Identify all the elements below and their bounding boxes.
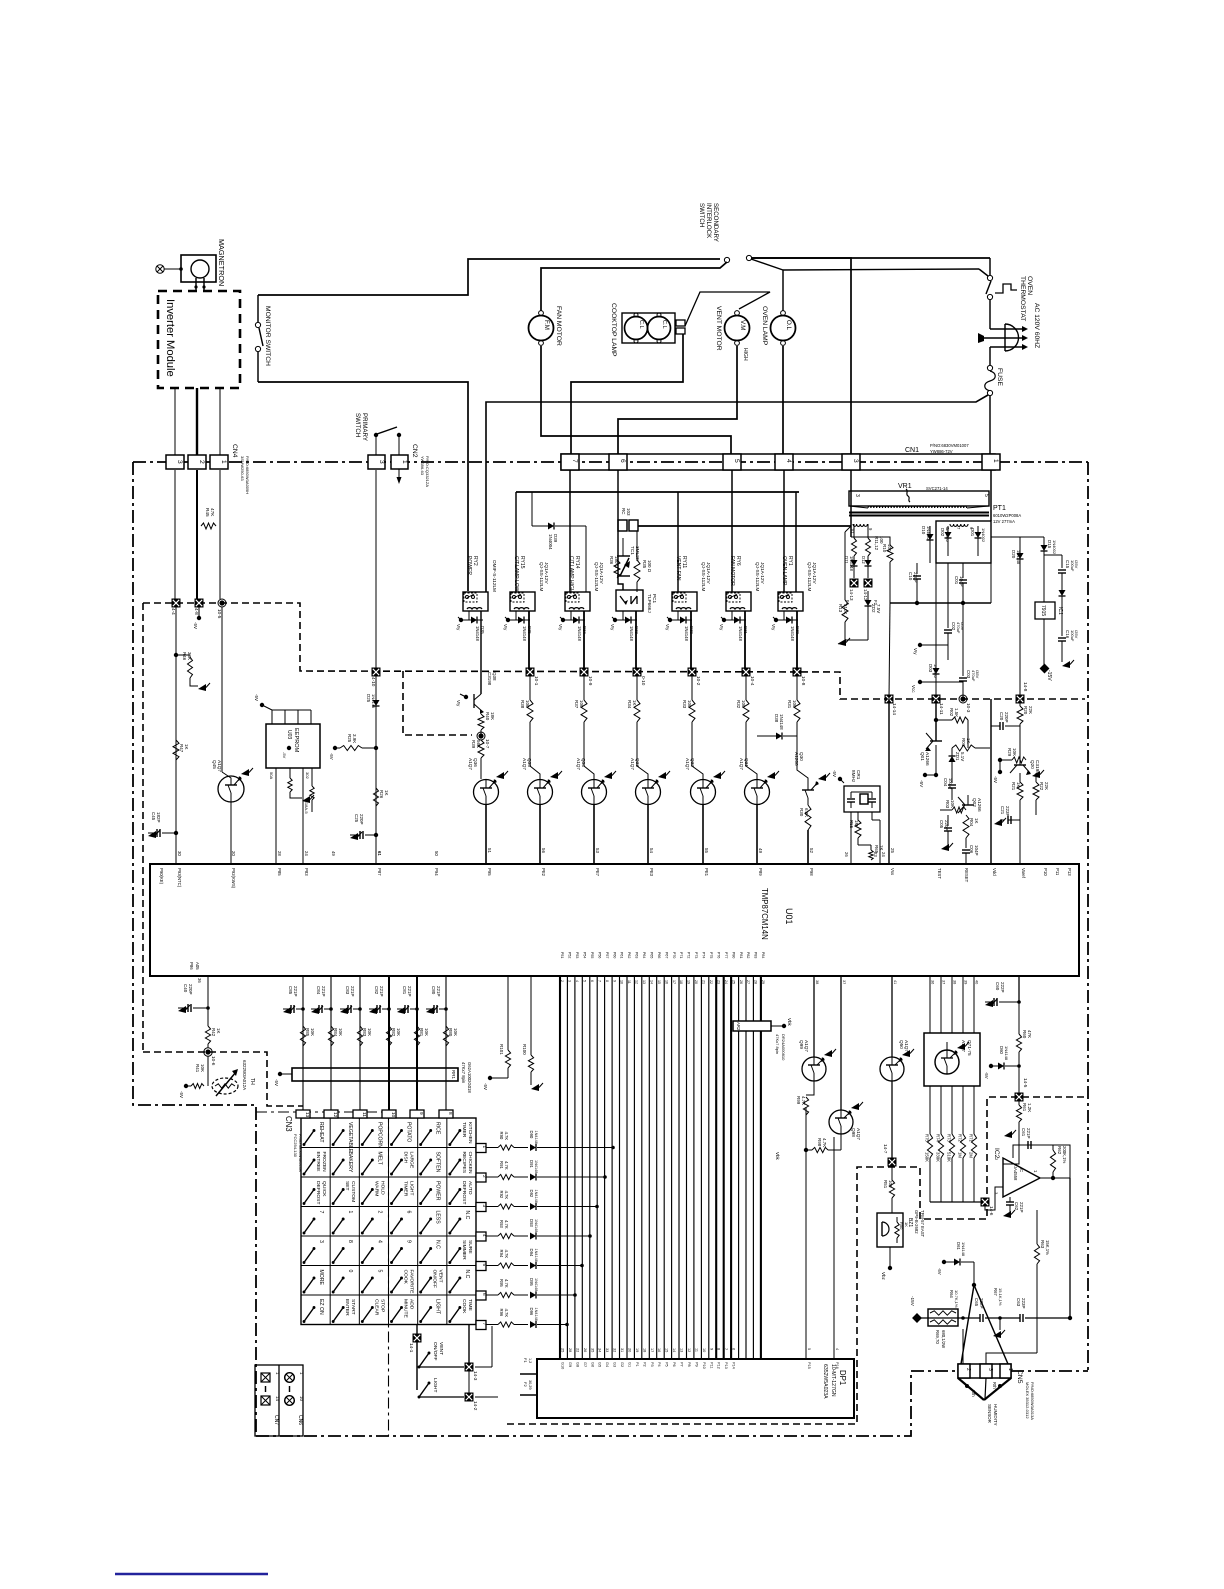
- svg-text:-5V: -5V: [984, 1072, 989, 1079]
- svg-text:Vbz: Vbz: [881, 1272, 886, 1280]
- wire lamp connector to vent motor rail: [685, 292, 770, 326]
- bus wire 10: [626, 976, 628, 1359]
- transistor Q99 A1Q7: [813, 976, 815, 1057]
- wires nodes up to keypad: [468, 1325, 470, 1364]
- node 4-10: [372, 668, 381, 677]
- svg-text:P10: P10: [1043, 868, 1048, 876]
- op-amp IC2 KIA4558: [1003, 1158, 1040, 1197]
- bus wire 16: [671, 976, 673, 1359]
- svg-text:D20: D20: [1011, 550, 1016, 559]
- svg-text:TFM-57 EAST: TFM-57 EAST: [920, 1210, 925, 1238]
- svg-text:8: 8: [605, 980, 609, 982]
- svg-text:R101: R101: [499, 1044, 504, 1055]
- svg-text:13: 13: [642, 980, 646, 984]
- resistor array AR2: [733, 1021, 771, 1031]
- zener ZD1 5.1V: [951, 748, 953, 756]
- svg-text:SURE: SURE: [467, 1240, 473, 1254]
- resistor R46 33K: [174, 653, 178, 657]
- svg-text:Rth': Rth': [992, 1382, 997, 1390]
- svg-text:100: 100: [887, 544, 892, 552]
- svg-text:24: 24: [881, 852, 886, 857]
- svg-text:ZD2: ZD2: [871, 604, 876, 613]
- svg-text:SECONDARY: SECONDARY: [712, 203, 719, 242]
- svg-text:22: 22: [709, 980, 713, 984]
- svg-text:ENTREE: ENTREE: [315, 1152, 321, 1173]
- node 10-8: [796, 611, 798, 672]
- svg-text:R84: R84: [333, 1028, 338, 1037]
- svg-text:14-7: 14-7: [883, 1144, 888, 1154]
- Inverter Module dashed box: [158, 291, 240, 388]
- svg-text:2: 2: [965, 1368, 971, 1371]
- svg-text:11: 11: [694, 1348, 698, 1352]
- wire CN1-6 down to PC1: [618, 470, 623, 590]
- svg-text:R13: R13: [838, 604, 843, 613]
- thermistor network: capacitor C40 220P: [207, 976, 209, 1026]
- svg-text:220P: 220P: [913, 572, 918, 582]
- svg-text:TIME: TIME: [467, 1299, 473, 1311]
- svg-text:D10: D10: [921, 526, 926, 535]
- wire relay 684 to node: [690, 611, 692, 672]
- svg-text:223P: 223P: [1005, 806, 1010, 816]
- svg-text:Vss: Vss: [890, 868, 895, 875]
- svg-text:7915: 7915: [1040, 605, 1046, 616]
- svg-text:10-4: 10-4: [750, 676, 755, 686]
- svg-text:ENTER: ENTER: [344, 1299, 350, 1316]
- svg-text:180 Ω: 180 Ω: [614, 556, 619, 569]
- svg-text:17: 17: [650, 1348, 654, 1352]
- svg-text:4.7K: 4.7K: [504, 1220, 509, 1229]
- diode D39 1N4004: [531, 492, 533, 526]
- key switch LIGHT: [421, 1308, 431, 1322]
- svg-text:P60: P60: [612, 952, 616, 958]
- svg-text:REHEAT: REHEAT: [318, 1122, 324, 1143]
- svg-text:CUSTOM: CUSTOM: [350, 1181, 356, 1202]
- svg-text:PRIMARY: PRIMARY: [361, 413, 368, 441]
- svg-text:U01: U01: [784, 908, 794, 924]
- resistor R83 10K: [357, 1026, 362, 1046]
- ground filament: [845, 639, 868, 641]
- svg-text:P71: P71: [679, 952, 683, 958]
- svg-text:R46: R46: [182, 652, 187, 661]
- svg-text:KIA4558: KIA4558: [1013, 1164, 1018, 1181]
- wire U01 to keypad column 3: [359, 976, 361, 1112]
- svg-text:182P: 182P: [156, 812, 161, 822]
- CN3 header boxes: [296, 1110, 310, 1118]
- svg-text:INTERLOCK: INTERLOCK: [705, 203, 712, 239]
- svg-text:Vcc: Vcc: [911, 685, 916, 693]
- svg-text:F2: F2: [523, 1382, 528, 1387]
- flyback diode D32 1N4148: [677, 611, 679, 620]
- svg-text:P2: P2: [642, 1362, 646, 1367]
- key switch VENT ON/OFF: [421, 1278, 431, 1292]
- svg-text:R42: R42: [211, 1028, 216, 1037]
- svg-text:Varef: Varef: [1021, 868, 1026, 879]
- svg-text:302: 302: [305, 772, 310, 779]
- svg-text:SET: SET: [344, 1181, 350, 1191]
- svg-text:LIGHT: LIGHT: [432, 1378, 438, 1392]
- svg-text:Q02: Q02: [972, 798, 977, 807]
- svg-text:R72: R72: [958, 1134, 963, 1142]
- svg-text:100: 100: [525, 700, 530, 708]
- svg-text:SWITCH: SWITCH: [698, 203, 705, 227]
- svg-text:D96: D96: [529, 1308, 534, 1316]
- svg-text:TIMER: TIMER: [461, 1122, 467, 1138]
- feedback C61 221P: [1040, 1177, 1070, 1179]
- node 14-13: [850, 579, 859, 588]
- capacitor C20 220P: [990, 699, 992, 864]
- svg-text:14-12: 14-12: [863, 589, 868, 601]
- svg-text:1N4148: 1N4148: [534, 1190, 538, 1203]
- svg-text:2: 2: [376, 1211, 382, 1214]
- svg-text:16: 16: [664, 980, 668, 984]
- relay RY1: [778, 592, 803, 611]
- svg-text:1K: 1K: [216, 1028, 221, 1033]
- svg-text:P64: P64: [642, 952, 646, 958]
- svg-text:10K: 10K: [367, 1028, 372, 1036]
- resistor R55 1M: [857, 812, 859, 820]
- svg-text:10K: 10K: [424, 1028, 429, 1036]
- dashed LV boundary spur: [403, 671, 472, 735]
- svg-text:36: 36: [931, 980, 935, 984]
- svg-text:A1Q7: A1Q7: [217, 760, 222, 772]
- wire CN4 pins down: [174, 470, 176, 599]
- svg-text:G62A1002G018: G62A1002G018: [467, 1062, 472, 1093]
- svg-text:1K: 1K: [1016, 782, 1021, 787]
- svg-text:220P: 220P: [188, 984, 193, 994]
- svg-text:C3198: C3198: [487, 672, 492, 686]
- svg-text:C85: C85: [288, 986, 293, 995]
- svg-text:C81: C81: [402, 986, 407, 995]
- dashed boundary bottom right: [507, 1097, 1085, 1424]
- svg-text:680,1/2W: 680,1/2W: [941, 1330, 946, 1348]
- transistor Q50 A1Q7: [891, 976, 893, 1057]
- svg-text:11: 11: [362, 1112, 367, 1117]
- svg-text:R22: R22: [1039, 782, 1044, 791]
- svg-text:A1266: A1266: [794, 752, 799, 766]
- IC2 pin2 network from 14-5: [1018, 976, 1020, 1002]
- svg-text:MOLEX 35312-0312: MOLEX 35312-0312: [1025, 1382, 1030, 1419]
- resistor R32 100: [745, 676, 747, 700]
- bus wire 20: [700, 976, 702, 1359]
- svg-text:5: 5: [983, 494, 989, 497]
- svg-text:9: 9: [419, 1112, 424, 1115]
- svg-text:DEFROST: DEFROST: [461, 1181, 467, 1204]
- svg-text:1N4002: 1N4002: [926, 526, 931, 541]
- svg-text:VENT: VENT: [438, 1342, 444, 1355]
- key switch POPCORN: [362, 1131, 372, 1145]
- svg-text:OVEN LAMP: OVEN LAMP: [761, 306, 768, 346]
- svg-text:D91: D91: [529, 1160, 534, 1168]
- svg-text:C06: C06: [969, 845, 974, 854]
- svg-text:C/T.LAMP HIGH: C/T.LAMP HIGH: [568, 556, 574, 593]
- svg-text:221P: 221P: [1019, 1202, 1024, 1212]
- svg-text:C84: C84: [316, 986, 321, 995]
- svg-text:D15: D15: [1047, 540, 1052, 549]
- svg-text:N.C: N.C: [464, 1270, 470, 1279]
- svg-text:100: 100: [888, 1180, 893, 1188]
- svg-text:17: 17: [672, 980, 676, 984]
- svg-text:51: 51: [487, 848, 492, 853]
- wire interlock to thermostat: [783, 269, 979, 270]
- wire U01 to keypad column 4: [388, 976, 390, 1112]
- svg-text:26: 26: [844, 852, 849, 857]
- svg-text:2: 2: [560, 980, 564, 982]
- svg-text:-5V: -5V: [832, 770, 837, 777]
- key switch 5: [362, 1278, 372, 1292]
- svg-text:Vry: Vry: [456, 700, 461, 707]
- transistor array Q71-75: [929, 976, 931, 1033]
- EEPROM U03: [266, 724, 320, 768]
- transistor Q02 A1266: [967, 795, 969, 805]
- svg-text:P5: P5: [665, 1362, 669, 1367]
- svg-text:OMIF-S-112LM: OMIF-S-112LM: [492, 560, 497, 592]
- transistor Q01 A1266: [935, 699, 937, 741]
- wire Q35 to U01 pin 56: [539, 805, 541, 864]
- svg-text:D12: D12: [861, 556, 866, 564]
- rectifier box D01 D02: [936, 521, 991, 563]
- svg-text:R75: R75: [925, 1134, 930, 1142]
- bus wire 22: [715, 976, 717, 1359]
- key switch 0: [333, 1278, 343, 1292]
- key switch MELT: [362, 1160, 372, 1174]
- resistor R50 1K: [896, 1217, 898, 1222]
- resistor R36 180: [614, 560, 620, 578]
- svg-text:P77: P77: [724, 952, 728, 958]
- svg-text:Vry: Vry: [456, 624, 461, 631]
- bus wire 23: [723, 976, 725, 1359]
- svg-text:9: 9: [406, 1240, 412, 1243]
- -5V tap q20: [999, 760, 1001, 770]
- node 10-1: [526, 668, 535, 677]
- svg-text:C61: C61: [1021, 1128, 1026, 1137]
- svg-text:C40: C40: [183, 984, 188, 993]
- svg-text:14-8: 14-8: [1023, 682, 1028, 692]
- svg-text:4.7K: 4.7K: [504, 1309, 509, 1318]
- svg-text:24: 24: [724, 980, 728, 984]
- svg-text:POPCORN: POPCORN: [376, 1122, 382, 1148]
- svg-text:5: 5: [376, 1270, 382, 1273]
- svg-text:221P: 221P: [436, 986, 441, 996]
- bus wire 26: [745, 976, 747, 1359]
- svg-text:C15: C15: [1065, 560, 1070, 569]
- svg-text:Vry: Vry: [503, 624, 508, 631]
- svg-text:VEGETABLE: VEGETABLE: [347, 1122, 353, 1153]
- svg-text:1K: 1K: [966, 738, 971, 743]
- connector CN2: [368, 455, 385, 469]
- dashed LV boundary with nodes: [143, 603, 1085, 699]
- svg-text:R98: R98: [817, 1138, 822, 1147]
- svg-text:VENT FAN: VENT FAN: [675, 556, 681, 581]
- resistor R91 4.7K: [486, 1176, 498, 1178]
- diode D25 1N4148: [375, 676, 377, 700]
- svg-text:56K: 56K: [476, 740, 481, 748]
- svg-text:14-5: 14-5: [1023, 1078, 1028, 1088]
- svg-text:12: 12: [635, 980, 639, 984]
- resistor array RR1: [292, 1068, 458, 1081]
- svg-text:-5V: -5V: [993, 776, 998, 783]
- bus wire 25: [738, 976, 740, 1359]
- node 14-12: [864, 579, 873, 588]
- svg-text:R30: R30: [799, 808, 804, 817]
- svg-text:R95: R95: [499, 1279, 504, 1287]
- diode D15 1N4002: [991, 536, 1044, 538]
- svg-text:3.9K: 3.9K: [352, 734, 357, 743]
- svg-text:10K: 10K: [1012, 748, 1017, 756]
- svg-text:G2: G2: [620, 1362, 624, 1367]
- capacitor C60 222P: [985, 1000, 993, 1007]
- svg-text:DR24A000810: DR24A000810: [781, 1034, 786, 1061]
- relay RY2: [463, 592, 488, 611]
- svg-text:ADD: ADD: [409, 1299, 415, 1310]
- lamp connector: [676, 320, 685, 326]
- svg-text:10: 10: [702, 1348, 706, 1352]
- relay feed bus: [516, 491, 799, 493]
- svg-text:11: 11: [627, 980, 631, 984]
- svg-text:YW886-72V: YW886-72V: [930, 449, 953, 454]
- svg-text:104P: 104P: [959, 576, 964, 586]
- wire relay 738 to node: [744, 611, 746, 672]
- svg-text:R32: R32: [736, 700, 741, 709]
- svg-text:R82: R82: [391, 1028, 396, 1037]
- svg-text:3: 3: [176, 460, 183, 464]
- diode to regulator: [1059, 590, 1066, 596]
- svg-text:1N4148: 1N4148: [849, 556, 854, 572]
- svg-text:R21: R21: [1011, 782, 1016, 791]
- svg-text:C62: C62: [1014, 1202, 1019, 1211]
- svg-text:3: 3: [568, 980, 572, 982]
- key switch EZ ON: [304, 1308, 314, 1322]
- svg-text:P81: P81: [739, 952, 743, 958]
- svg-text:1N4148: 1N4148: [629, 626, 634, 642]
- svg-text:36: 36: [197, 978, 202, 983]
- wire inverter to CN4 pin1: [219, 388, 221, 456]
- svg-text:C02: C02: [951, 622, 956, 631]
- svg-text:R37: R37: [574, 700, 579, 709]
- node 10-4: [742, 668, 751, 677]
- svg-text:CN1: CN1: [905, 447, 919, 454]
- capacitor C65 222P: [917, 1317, 980, 1319]
- monitor switch: [257, 295, 259, 322]
- node 14-2: [419, 1396, 464, 1398]
- capacitor C45 182P: [148, 831, 156, 838]
- svg-text:10-6: 10-6: [211, 1056, 216, 1066]
- svg-text:P61: P61: [620, 952, 624, 958]
- svg-text:P93(NTC): P93(NTC): [177, 868, 182, 888]
- svg-text:55: 55: [704, 848, 709, 853]
- key switch 2: [362, 1219, 372, 1233]
- key switch FAVORITE COOK: [392, 1278, 402, 1292]
- svg-text:ON/OFF: ON/OFF: [432, 1342, 438, 1361]
- svg-text:Vry: Vry: [719, 624, 724, 631]
- AC plug: [1005, 324, 1019, 351]
- svg-text:1: 1: [220, 460, 227, 464]
- wire U01 to keypad column 1: [302, 976, 304, 1112]
- svg-text:R94: R94: [499, 1250, 504, 1258]
- svg-text:D02: D02: [940, 528, 945, 537]
- resistor R93 4.7K: [486, 1235, 498, 1237]
- op-amp U01 microcontroller TMP87CM14N: [150, 864, 1079, 976]
- key switch STOP CLEAR: [362, 1308, 372, 1322]
- bus wire 19: [693, 976, 695, 1359]
- key switch ADD MINUTE: [392, 1308, 402, 1322]
- svg-text:Q99: Q99: [799, 1040, 804, 1049]
- wire CN1-7 down to relay RY14: [569, 470, 571, 592]
- svg-text:U03: U03: [286, 730, 292, 739]
- svg-text:IC: IC: [1019, 1168, 1024, 1172]
- bus wire 8: [611, 976, 613, 1359]
- svg-text:Vry: Vry: [610, 624, 615, 631]
- svg-text:P66: P66: [657, 952, 661, 958]
- key switch HOLD WARM: [362, 1190, 372, 1204]
- svg-text:-5V: -5V: [937, 1268, 942, 1275]
- key switch CHICKEN RECIPES: [450, 1160, 460, 1174]
- svg-text:SWITCH: SWITCH: [354, 413, 361, 437]
- svg-text:1N4148: 1N4148: [534, 1249, 538, 1262]
- key switch N.C: [450, 1278, 460, 1292]
- capacitor C15 100uF 25V: [1061, 555, 1063, 568]
- svg-text:32: 32: [613, 1348, 617, 1352]
- resistor R21 1K: [1019, 773, 1021, 782]
- svg-text:HOLD: HOLD: [379, 1181, 385, 1195]
- svg-text:FAVORITE: FAVORITE: [409, 1270, 415, 1295]
- svg-text:POWER: POWER: [466, 556, 472, 575]
- svg-text:1.2K: 1.2K: [1027, 1103, 1032, 1112]
- svg-text:Vbk: Vbk: [787, 1018, 792, 1026]
- fan motor F.M: [529, 316, 554, 341]
- wire CN1-5 down to relay RY6: [731, 470, 733, 592]
- svg-text:/25V: /25V: [1074, 630, 1079, 639]
- PT1 secondary winding B: [950, 524, 968, 526]
- wire inverter to CN4 pin3: [174, 388, 176, 456]
- svg-text:1N4002: 1N4002: [981, 528, 986, 543]
- svg-text:G3: G3: [613, 1362, 617, 1367]
- svg-text:QJ-SS-112LM: QJ-SS-112LM: [594, 562, 599, 591]
- svg-text:A1Q7: A1Q7: [739, 758, 744, 770]
- svg-text:13: 13: [305, 1112, 310, 1118]
- svg-text:C10: C10: [908, 572, 913, 581]
- svg-text:3: 3: [378, 460, 385, 464]
- svg-text:47K: 47K: [210, 508, 215, 517]
- svg-text:COOK: COOK: [403, 1270, 409, 1285]
- transistor Q20 C3198: [1019, 745, 1021, 765]
- svg-text:P95: P95: [487, 868, 492, 876]
- resistor R41 10K: [207, 1056, 209, 1086]
- crystal CR1 8MHz: [844, 786, 880, 812]
- blue page artifact line: [115, 1573, 268, 1575]
- resistor R84 10K: [328, 1026, 333, 1046]
- svg-text:Q01: Q01: [920, 752, 925, 761]
- resistor R85 10K: [300, 1026, 305, 1046]
- transistor Q38 C3198: [473, 694, 475, 708]
- relay RY15: [510, 592, 535, 611]
- svg-text:15K,1%: 15K,1%: [1045, 1240, 1050, 1255]
- resistor R04 1K: [963, 815, 969, 838]
- svg-text:4.7K: 4.7K: [801, 1096, 806, 1105]
- wire fuse to CN1-1: [989, 396, 991, 455]
- svg-text:R51: R51: [883, 1180, 888, 1189]
- svg-text:COOK: COOK: [461, 1299, 467, 1314]
- svg-text:FAN MOTOR: FAN MOTOR: [555, 306, 562, 346]
- humidity sensor element: [958, 1378, 984, 1400]
- svg-text:6: 6: [406, 1211, 412, 1214]
- svg-text:3: 3: [987, 1368, 993, 1371]
- svg-text:10: 10: [299, 1396, 304, 1401]
- capacitor C84 221P: [311, 1007, 319, 1014]
- svg-text:1.5K: 1.5K: [954, 708, 959, 717]
- svg-text:49: 49: [758, 848, 763, 853]
- svg-text:9: 9: [612, 980, 616, 982]
- svg-text:2M: 2M: [969, 1152, 974, 1158]
